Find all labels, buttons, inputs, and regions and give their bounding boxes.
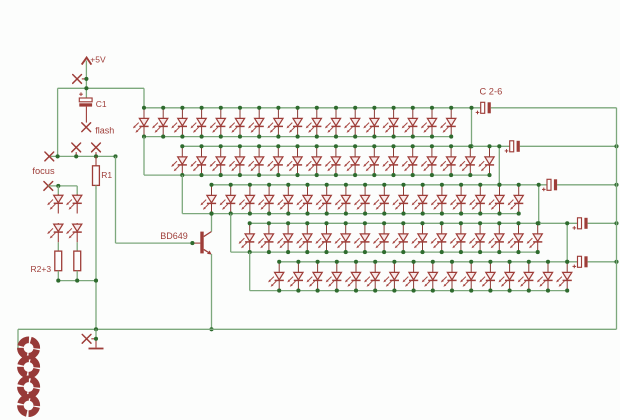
LED row 1 #8 [267,106,283,139]
LED row 3 #11 [392,183,408,216]
junction jog row 3 top [537,183,541,187]
junction jog row 2 top [497,144,501,148]
LED row 4 #9 [392,221,408,254]
pad X5 flash contact [92,143,101,156]
wire +5V feed down to row 1 [143,88,145,108]
wire row 2 cap to right bus [520,145,617,147]
LED row 4 #4 [296,221,312,254]
LED row 1 #10 [306,106,322,139]
LED row 4 #2 [258,221,274,254]
junction jog row 1 bottom [469,144,473,148]
capacitor C6 [573,256,588,268]
wire row 5 cathode rail [250,290,568,292]
junction switch rail / left branch [56,154,60,158]
LED row 5 #10 [441,260,457,293]
LED row 5 #3 [307,260,323,293]
LED row 1 #14 [383,106,399,139]
junction switch rail / base branch [113,154,117,158]
LED row 3 #2 [220,183,236,216]
wire cathode chain row3-row4 [230,214,232,253]
wire row 2 cathode rail [144,174,490,176]
wire emitter [211,254,213,329]
LED focus string 2 #2 [66,223,82,242]
svg-text:flash: flash [95,126,114,136]
LED row 4 #5 [315,221,331,254]
LED row 2 #17 [478,144,494,177]
junction +5V branch [84,86,88,90]
junction right bus row 5 [614,260,618,264]
junction emitter / ground rail [209,327,213,331]
resistor R1 [93,156,100,189]
junction X4 / switch rail [74,154,78,158]
LED focus string 1 #1 [47,194,63,213]
LED row 5 #6 [364,260,380,293]
pad X7 ground [82,334,96,343]
LED row 5 #5 [345,260,361,293]
LED row 2 #1 [171,144,187,177]
wire row 5 anode rail [279,261,577,263]
LED row 2 #5 [248,144,264,177]
svg-text:focus: focus [32,166,55,176]
wire battery drop [17,329,19,350]
wire base branch vertical [115,156,117,243]
capacitor C1 [79,92,92,122]
wire row 4 cathode rail [231,251,538,253]
capacitor C3 [505,141,520,153]
LED row 3 #14 [450,183,466,216]
LED row 1 #2 [152,106,168,139]
battery pad ring 1 [19,338,38,357]
wire anode jog row 3 to row 4 [538,185,540,224]
capacitor C5 [573,218,588,230]
junction ground pad [94,337,98,341]
wire row 1 anode rail [144,107,481,109]
LED row 5 #1 [268,260,284,293]
LED row 3 #6 [296,183,312,216]
LED row 3 #15 [469,183,485,216]
wire cathode chain row4-row5 [249,252,251,291]
junction jog row 2 bottom [497,183,501,187]
battery pad ring 4 [19,396,38,415]
LED row 1 #12 [344,106,360,139]
battery pad ring 2 [19,357,38,376]
LED row 1 #1 [133,106,149,139]
resistor R3 [74,251,81,271]
LED row 4 #14 [488,221,504,254]
LED row 2 #8 [306,144,322,177]
LED row 3 #9 [354,183,370,216]
junction right bus row 3 [614,183,618,187]
wire left branch down to switch rail [57,88,59,156]
LED row 1 #7 [248,106,264,139]
pad X2 flash [82,123,91,132]
LED row 1 #15 [402,106,418,139]
LED row 1 #13 [363,106,379,139]
LED row 1 #6 [229,106,245,139]
junction jog row 1 top [469,106,473,110]
LED row 4 #10 [411,221,427,254]
wire row 5 cap to right bus [588,261,617,263]
wire row 4 anode rail [250,222,578,224]
LED row 3 #8 [335,183,351,216]
LED row 5 #11 [460,260,476,293]
LED row 2 #10 [344,144,360,177]
LED row 2 #9 [325,144,341,177]
wire +5V vertical [85,61,87,99]
pad X4 flash contact [72,143,81,156]
wire focus left string top [57,186,59,196]
wire focus right string to R3 [76,242,78,251]
junction jog row 4 top [565,221,569,225]
wire focus right string top [76,186,78,196]
wire row 3 cap to right bus [557,184,616,186]
LED row 2 #7 [286,144,302,177]
LED row 3 #4 [258,183,274,216]
LED row 1 #11 [325,106,341,139]
wire anode jog row 4 to row 5 [566,223,568,261]
wire switch rail [49,155,115,157]
LED row 4 #3 [277,221,293,254]
LED row 3 #16 [488,183,504,216]
wire row 3 anode rail [212,184,548,186]
LED row 2 #15 [440,144,456,177]
svg-text:BD649: BD649 [160,231,188,241]
LED focus string 2 #1 [66,194,82,213]
wire focus feed [48,185,77,187]
LED row 3 #12 [412,183,428,216]
LED row 5 #9 [422,260,438,293]
LED row 5 #16 [556,260,572,293]
svg-text:R2+3: R2+3 [31,264,52,274]
LED row 2 #12 [382,144,398,177]
LED row 2 #14 [421,144,437,177]
junction right bus row 4 [614,221,618,225]
LED row 2 #11 [363,144,379,177]
LED row 5 #2 [287,260,303,293]
wire R2 to cathode rail [57,271,59,281]
LED row 1 #5 [210,106,226,139]
junction jog row 4 bottom [565,260,569,264]
LED row 4 #16 [527,221,543,254]
LED row 5 #12 [479,260,495,293]
pad X3 left end of switch rail [45,152,54,161]
LED row 4 #6 [335,221,351,254]
wire cathode chain row1-row2 [143,137,145,176]
junction R3 / rail [75,279,79,283]
LED row 3 #10 [373,183,389,216]
ground symbol GND [89,329,104,348]
LED row 3 #3 [239,183,255,216]
LED row 1 #9 [287,106,303,139]
wire right bus [616,108,618,329]
LED row 4 #13 [469,221,485,254]
junction R2 / rail [56,279,60,283]
junction R2+3 rail / R1 wire [94,279,98,283]
wire focus left string to R2 [57,242,59,251]
junction collector / row 3 cathode rail [209,212,213,216]
LED row 2 #4 [229,144,245,177]
LED row 3 #1 [200,183,216,216]
wire row 3 cathode rail [182,213,518,215]
wire +5V horizontal branch [58,87,144,89]
wire row 2 anode rail [182,145,509,147]
LED row 3 #5 [277,183,293,216]
LED row 4 #15 [507,221,523,254]
battery pad ring 3 [19,377,38,396]
junction right bus row 2 [614,144,618,148]
junction focus feed / left string [56,184,60,188]
LED row 2 #3 [210,144,226,177]
LED row 4 #7 [354,221,370,254]
pad X6 focus [44,182,53,191]
LED row 2 #6 [267,144,283,177]
pad X1 on +5V wire [73,75,87,84]
wire anode jog row 2 to row 3 [498,146,500,185]
LED row 5 #15 [537,260,553,293]
wire anode jog row 1 to row 2 [471,108,473,147]
LED row 5 #14 [518,260,534,293]
wire row 4 cap to right bus [588,222,617,224]
wire row 1 cathode rail [144,136,451,138]
junction ground / R1 wire [94,327,98,331]
supply +5V symbol [82,55,106,65]
capacitor C4 [542,179,557,191]
LED row 1 #16 [421,106,437,139]
wire collector [211,214,213,232]
junction X1 / +5V wire [84,77,88,81]
LED focus string 1 #2 [47,223,63,242]
LED row 2 #16 [459,144,475,177]
LED row 4 #11 [431,221,447,254]
LED row 1 #3 [171,106,187,139]
wire ground rail [18,328,617,330]
LED row 4 #12 [450,221,466,254]
resistor R2 [55,251,62,271]
LED row 2 #13 [402,144,418,177]
wire R3 to cathode rail [76,271,78,281]
LED row 1 #17 [440,106,456,139]
wire R2+3 cathode rail [58,280,96,282]
svg-text:R1: R1 [101,170,112,180]
LED row 5 #8 [403,260,419,293]
svg-text:+5V: +5V [90,55,106,65]
wire base branch horizontal [116,242,193,244]
LED row 5 #7 [383,260,399,293]
LED row 5 #13 [499,260,515,293]
wire cathode chain row2-row3 [181,175,183,214]
wire row 1 cap to right bus [491,107,617,109]
LED row 2 #2 [190,144,206,177]
LED row 3 #7 [316,183,332,216]
LED row 3 #17 [508,183,524,216]
transistor Q1 BD649 [192,232,211,255]
svg-text:C1: C1 [96,99,107,109]
capacitor C2 [476,102,491,114]
wire R1 down to ground rail [95,185,97,329]
LED row 1 #4 [191,106,207,139]
LED row 4 #8 [373,221,389,254]
LED row 3 #13 [431,183,447,216]
junction base [190,241,194,245]
LED row 4 #1 [239,221,255,254]
junction X5 / switch rail [94,154,98,158]
junction jog row 3 bottom [537,221,541,225]
LED row 5 #4 [326,260,342,293]
svg-text:C 2-6: C 2-6 [480,87,503,97]
